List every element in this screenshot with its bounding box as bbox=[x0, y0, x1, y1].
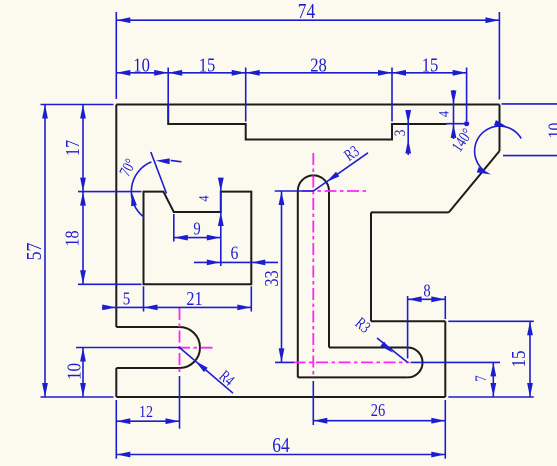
angular dim 70: arrows and tail bbox=[156, 158, 170, 164]
radius R3 channel: arrow bbox=[380, 342, 393, 353]
extension line vertical bbox=[444, 400, 446, 459]
dim 4 top-right bbox=[453, 90, 455, 139]
L-slot: left leg bbox=[297, 191, 299, 377]
extension line vertical bbox=[143, 286, 145, 311]
extension line horizontal bbox=[448, 320, 534, 322]
part outline: right edge lower bbox=[444, 321, 446, 397]
dim 9 bbox=[174, 237, 221, 239]
extension line horizontal bbox=[275, 190, 314, 192]
svg-text:28: 28 bbox=[310, 55, 327, 77]
svg-text:5: 5 bbox=[123, 288, 131, 308]
svg-text:21: 21 bbox=[186, 289, 202, 310]
svg-text:7: 7 bbox=[473, 375, 490, 382]
angular dim 140: arc bbox=[475, 126, 522, 171]
svg-text:26: 26 bbox=[371, 400, 386, 420]
extension line vertical top bbox=[115, 12, 117, 99]
radius R3 channel: leader bbox=[377, 338, 408, 362]
extension line vertical top bbox=[167, 68, 169, 120]
extension line vertical bbox=[407, 296, 409, 359]
extension line horizontal bbox=[448, 396, 534, 398]
dim 17 bbox=[82, 105, 84, 192]
extension line vertical top bbox=[498, 12, 500, 100]
dim 12 bbox=[116, 420, 179, 422]
dim 15 top-left bbox=[168, 72, 246, 74]
extension line horizontal bbox=[502, 103, 557, 105]
svg-text:17: 17 bbox=[63, 140, 84, 156]
L-slot: right leg bbox=[328, 191, 330, 348]
part outline: left edge upper bbox=[115, 105, 117, 328]
extension line vertical bbox=[115, 400, 117, 459]
L-slot: channel bottom bbox=[298, 376, 408, 378]
svg-text:4: 4 bbox=[437, 110, 453, 117]
extension line horizontal bbox=[78, 283, 142, 285]
svg-text:12: 12 bbox=[139, 402, 153, 421]
L-slot: top cap R3 bbox=[298, 175, 329, 191]
part outline: chamfer 140 deg bbox=[449, 151, 500, 212]
dim 28 bbox=[246, 72, 392, 74]
left slot R4: bottom edge bbox=[116, 367, 179, 369]
extension line vertical bbox=[173, 214, 175, 242]
extension line horizontal bbox=[41, 396, 114, 398]
extension line vertical top bbox=[466, 68, 468, 122]
part outline: right edge upper bbox=[499, 105, 501, 152]
extension line vertical bbox=[250, 286, 252, 311]
svg-text:64: 64 bbox=[272, 433, 290, 457]
dim 64 bbox=[116, 454, 445, 456]
extension line horizontal bbox=[503, 155, 557, 157]
svg-text:9: 9 bbox=[193, 219, 201, 239]
angular dim 70: slant extension bbox=[151, 152, 167, 194]
radius R4: arrow bbox=[195, 361, 208, 372]
left slot R4: top edge bbox=[116, 326, 179, 328]
svg-text:15: 15 bbox=[199, 55, 216, 77]
dim 3 bbox=[407, 110, 409, 155]
svg-text:18: 18 bbox=[63, 230, 84, 246]
svg-text:10: 10 bbox=[545, 123, 557, 139]
svg-text:33: 33 bbox=[262, 270, 283, 286]
svg-text:74: 74 bbox=[298, 0, 316, 23]
extension line horizontal bbox=[41, 104, 114, 106]
extension line vertical bbox=[220, 181, 222, 266]
part outline: mid horizontal bbox=[371, 211, 449, 213]
extension line horizontal bbox=[78, 191, 142, 193]
L-slot: right cap R3 bbox=[408, 348, 423, 378]
extension line vertical top bbox=[391, 68, 393, 122]
dim 33 bbox=[281, 191, 283, 362]
dim 10 left bbox=[82, 348, 84, 398]
extension line horizontal bbox=[411, 361, 500, 363]
left slot R4: end arc bbox=[180, 327, 200, 368]
part outline: top edge bbox=[116, 104, 499, 106]
part outline: left edge lower bbox=[115, 368, 117, 397]
dim 10 top bbox=[116, 72, 168, 74]
dim 21 bbox=[144, 306, 252, 308]
L-slot: channel top bbox=[329, 347, 408, 349]
svg-text:15: 15 bbox=[422, 55, 439, 77]
dim 8 bbox=[408, 298, 446, 300]
dim 18 bbox=[82, 192, 84, 285]
svg-text:4: 4 bbox=[197, 195, 213, 202]
extension line vertical bbox=[312, 381, 314, 425]
dim 5 bbox=[102, 306, 144, 308]
angular dim 140: vertex dot bbox=[464, 121, 469, 126]
radius R4: leader bbox=[180, 348, 234, 394]
centerline horizontal R4 slot bbox=[178, 347, 214, 349]
extension line vertical top bbox=[245, 68, 247, 122]
dim 57 bbox=[44, 105, 46, 398]
centerline horizontal channel bbox=[294, 361, 410, 363]
extension line horizontal bbox=[275, 361, 294, 363]
svg-text:57: 57 bbox=[22, 242, 46, 260]
centerline horizontal top cap bbox=[302, 190, 368, 192]
svg-text:10: 10 bbox=[63, 363, 85, 380]
dim 15 top-right bbox=[392, 72, 467, 74]
extension line vertical bbox=[444, 296, 446, 319]
part outline: mid vertical bbox=[370, 212, 372, 321]
part outline: step horizontal bbox=[371, 320, 445, 322]
dim 6 bbox=[194, 261, 278, 263]
centerline vertical L-slot bbox=[312, 153, 314, 378]
part outline: bottom edge bbox=[116, 396, 445, 398]
svg-text:15: 15 bbox=[508, 351, 530, 368]
svg-text:10: 10 bbox=[133, 55, 150, 77]
angular dim 140: leg line bbox=[447, 123, 467, 125]
dim 15 right bbox=[529, 321, 531, 397]
island with 70 deg chamfer notch bbox=[144, 192, 252, 285]
angular dim 70: arc bbox=[131, 162, 151, 217]
dim 26 bbox=[313, 420, 445, 422]
centerline vertical R4 slot bbox=[179, 308, 181, 375]
svg-text:8: 8 bbox=[423, 280, 431, 300]
svg-text:6: 6 bbox=[231, 243, 239, 264]
angular dim 140: arrows bbox=[494, 120, 508, 128]
radius R3 top cap: arrow bbox=[326, 172, 339, 182]
svg-text:3: 3 bbox=[392, 130, 409, 137]
radius R3 top cap: leader bbox=[313, 153, 368, 191]
dim 4 notch bbox=[218, 178, 224, 192]
extension line horizontal bbox=[76, 347, 180, 349]
dim 7 bbox=[492, 362, 494, 397]
extension line vertical bbox=[179, 376, 181, 429]
dim 74 bbox=[116, 19, 499, 21]
top groove staircase bbox=[168, 105, 446, 140]
